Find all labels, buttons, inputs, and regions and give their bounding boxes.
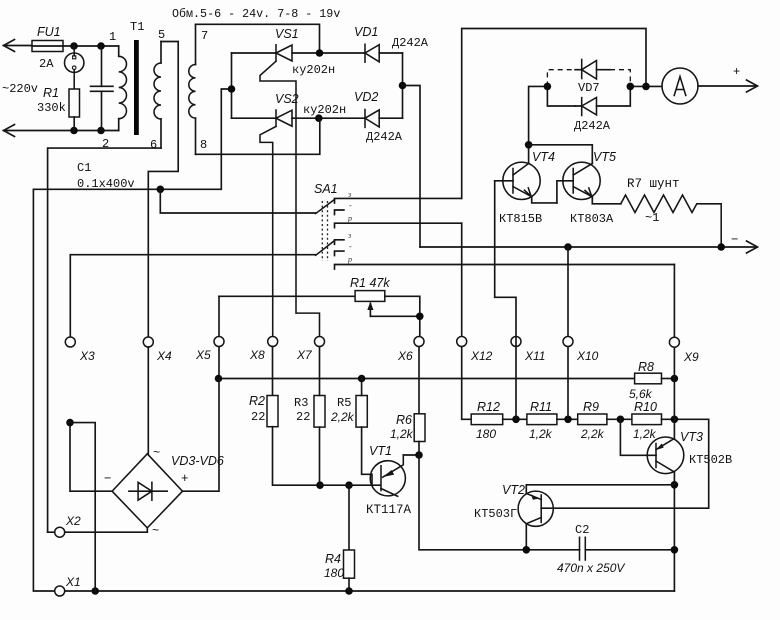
svg-text:VT2: VT2 bbox=[502, 483, 525, 497]
svg-text:X2: X2 bbox=[65, 514, 81, 528]
svg-text:180: 180 bbox=[476, 427, 496, 441]
junction dot VD out bbox=[399, 82, 407, 90]
terminal X11 bbox=[511, 337, 521, 347]
svg-text:+: + bbox=[181, 472, 189, 486]
svg-text:-: - bbox=[349, 201, 352, 210]
svg-text:2A: 2A bbox=[39, 57, 54, 71]
wire SA1 з-row riser to top link bbox=[462, 29, 646, 199]
neon lamp HL1 bbox=[65, 46, 84, 89]
terminal X1 bbox=[55, 586, 65, 596]
svg-text:Обм.5-6 - 24v. 7-8 - 19v: Обм.5-6 - 24v. 7-8 - 19v bbox=[172, 7, 340, 21]
svg-text:X11: X11 bbox=[524, 349, 545, 363]
svg-text:VD7: VD7 bbox=[578, 81, 600, 95]
minus arrow bbox=[747, 241, 758, 253]
svg-text:VT4: VT4 bbox=[532, 150, 555, 164]
switch SA1 pole1 blade bbox=[316, 200, 335, 214]
svg-text:1,2k: 1,2k bbox=[529, 427, 553, 441]
+DC rail bbox=[219, 378, 635, 380]
svg-text:C2: C2 bbox=[575, 523, 589, 537]
wire X12 to R12 bbox=[462, 347, 472, 420]
switch SA1 pole2 blade bbox=[316, 241, 335, 256]
terminal X8 bbox=[268, 337, 278, 347]
svg-text:−: − bbox=[104, 472, 112, 486]
svg-text:R11: R11 bbox=[530, 400, 552, 414]
svg-text:1,2k: 1,2k bbox=[633, 427, 657, 441]
svg-text:X4: X4 bbox=[156, 349, 172, 363]
wire R11-R9 link bbox=[557, 418, 578, 420]
thyristor VS1 bbox=[232, 45, 366, 336]
junction dot ammeter tap bbox=[642, 83, 650, 91]
wire X2 left stub from winding6 drop bbox=[48, 531, 55, 533]
wire SA1 pole1-р to X12 riser bbox=[461, 223, 463, 336]
junction dot R12/R11/X11 bbox=[512, 416, 520, 424]
wire VS2 out down to winding8 line bbox=[196, 118, 320, 154]
wire X3 node to bottom rail bbox=[70, 423, 95, 591]
svg-text:T1: T1 bbox=[130, 20, 144, 34]
transistor VT2 (mirrored) bbox=[518, 491, 553, 550]
wire X9 riser through R8/R10 nodes to VT3 bbox=[673, 347, 675, 438]
resistor R2 bbox=[267, 347, 320, 486]
wire VD1-VD2 junction vertical bbox=[402, 53, 404, 118]
svg-text:2,2k: 2,2k bbox=[330, 410, 355, 424]
svg-text:1: 1 bbox=[109, 30, 116, 44]
transistor VT5 bbox=[557, 162, 621, 204]
resistor R11 bbox=[527, 414, 557, 425]
resistor R9 bbox=[578, 414, 607, 425]
svg-text:-: - bbox=[349, 242, 352, 251]
plus output arrow bbox=[698, 80, 758, 92]
wire X5 to +rail dot bbox=[218, 347, 220, 379]
svg-text:8: 8 bbox=[200, 138, 207, 152]
svg-text:~: ~ bbox=[152, 524, 159, 538]
svg-text:X10: X10 bbox=[576, 349, 599, 363]
junction dot VT2 emitter line bbox=[671, 481, 679, 489]
svg-text:R6: R6 bbox=[396, 413, 412, 427]
junction dot R8/X9 bbox=[671, 375, 679, 383]
svg-text:R1: R1 bbox=[43, 86, 59, 100]
junction dot X3 node bbox=[66, 419, 74, 427]
junction dot R6/VT1 base2 bbox=[415, 451, 423, 459]
svg-text:КТ502В: КТ502В bbox=[689, 453, 732, 467]
wire bridge bottom to X2 line bbox=[65, 528, 147, 532]
junction dot bottom rail x95 bbox=[91, 587, 99, 595]
svg-text:R2: R2 bbox=[249, 394, 265, 408]
wire minus to X10 bbox=[567, 247, 569, 336]
SA1 pole1 contact р bbox=[335, 223, 462, 228]
SA1 pole2 contact р bbox=[335, 265, 675, 270]
resistor R3 bbox=[314, 347, 325, 485]
SA1 pole1 contact з bbox=[335, 198, 462, 203]
resistor R10 bbox=[632, 414, 662, 425]
svg-text:КТ117А: КТ117А bbox=[366, 503, 412, 517]
wire winding6 left run bbox=[48, 148, 161, 532]
wire X6 to R6 bbox=[418, 347, 420, 414]
svg-text:КТ503Г: КТ503Г bbox=[474, 507, 517, 521]
junction dot pot wiper bbox=[416, 313, 424, 321]
svg-text:VD1: VD1 bbox=[354, 25, 378, 39]
svg-text:VT3: VT3 bbox=[680, 430, 703, 444]
junction dot R9/R10/VT3 base bbox=[617, 416, 625, 424]
AC input arrow top (~220v line) bbox=[4, 40, 33, 52]
junction dot minus/X10 bbox=[564, 243, 572, 251]
terminal X3 bbox=[65, 337, 75, 347]
junction dot emitter line / R3 bbox=[316, 481, 324, 489]
terminal X6 bbox=[414, 337, 424, 347]
wire X3 riser bbox=[69, 255, 71, 337]
svg-text:R5: R5 bbox=[337, 396, 351, 410]
ammeter PA1 bbox=[662, 68, 698, 104]
wire R10 right to VT2 base corner bbox=[541, 419, 709, 508]
svg-text:C1: C1 bbox=[77, 161, 91, 175]
resistor R4 bbox=[344, 485, 355, 591]
svg-text:X5: X5 bbox=[195, 348, 211, 362]
wire VD7 left to VT4/VT5 collectors bbox=[529, 86, 548, 144]
wire X10 lower riser bbox=[567, 347, 569, 420]
wire collector node to VT5 bbox=[529, 145, 593, 164]
dashed diode symbol (VD7 box) bbox=[575, 60, 610, 80]
terminal X10 bbox=[563, 337, 573, 347]
capacitor C2 bbox=[580, 537, 675, 560]
svg-text:7: 7 bbox=[201, 29, 208, 43]
transformer T1 primary winding 1-2 bbox=[119, 46, 127, 131]
svg-text:р: р bbox=[347, 214, 352, 223]
node junction dots at lamp/C1 taps bbox=[70, 42, 78, 50]
junction dot bottom rail x349 (R4) bbox=[345, 587, 353, 595]
transistor VT4 bbox=[495, 145, 557, 203]
wire emitter line into VT1 bbox=[320, 484, 381, 486]
svg-text:SA1: SA1 bbox=[314, 182, 338, 196]
SA1 pole2 contact з bbox=[335, 240, 344, 245]
svg-text:VD3-VD6: VD3-VD6 bbox=[171, 454, 224, 468]
transistor VT3 bbox=[647, 437, 684, 474]
wire winding7 top to VS1 node bbox=[196, 24, 320, 53]
svg-text:5: 5 bbox=[158, 28, 165, 42]
T1 winding 5-6 bbox=[154, 42, 161, 149]
T1 core bar bbox=[134, 40, 139, 135]
svg-text:X1: X1 bbox=[65, 575, 81, 589]
svg-text:ку202н: ку202н bbox=[303, 103, 346, 117]
svg-text:з: з bbox=[347, 231, 351, 240]
wire VT2 emitter line bbox=[526, 485, 674, 494]
svg-text:VT1: VT1 bbox=[369, 444, 392, 458]
svg-text:1,2k: 1,2k bbox=[390, 427, 414, 441]
svg-text:22: 22 bbox=[296, 410, 310, 424]
junction dot rail/R5 bbox=[358, 375, 366, 383]
resistor R5 bbox=[356, 379, 372, 486]
wire VD junction to SA1 and minus rail bbox=[403, 86, 421, 248]
wire R12-R11 link bbox=[503, 418, 527, 420]
junction dot R11/R9/X10 bbox=[564, 416, 572, 424]
diode VD1 bbox=[365, 44, 403, 62]
vertical VS1-VS2 link with center tap dot bbox=[231, 53, 233, 118]
resistor R1 330k bbox=[69, 89, 80, 131]
svg-text:R9: R9 bbox=[583, 400, 599, 414]
svg-text:330k: 330k bbox=[37, 101, 66, 115]
svg-text:X6: X6 bbox=[397, 349, 413, 363]
svg-text:X7: X7 bbox=[296, 348, 313, 362]
dashed box VD7 alt diode bbox=[547, 70, 630, 87]
terminal X4 bbox=[143, 337, 153, 347]
wire bridge minus to X3 node bbox=[70, 423, 112, 492]
svg-text:R7 шунт: R7 шунт bbox=[627, 177, 680, 191]
capacitor C1 bbox=[91, 46, 114, 131]
fuse FU1 bbox=[32, 41, 119, 52]
resistor R6 bbox=[414, 414, 425, 455]
svg-text:FU1: FU1 bbox=[37, 25, 61, 39]
svg-text:R3: R3 bbox=[294, 396, 308, 410]
terminal X5 bbox=[214, 337, 224, 347]
svg-text:~220v: ~220v bbox=[2, 82, 38, 96]
switch SA1 pole1 common bbox=[160, 189, 315, 213]
svg-text:ку202н: ку202н bbox=[292, 63, 335, 77]
svg-text:VS1: VS1 bbox=[275, 27, 299, 41]
svg-text:470n x 250V: 470n x 250V bbox=[557, 561, 625, 575]
svg-text:X3: X3 bbox=[79, 349, 95, 363]
terminal X12 bbox=[457, 337, 467, 347]
junction dot VD7 left bbox=[544, 83, 552, 91]
diode VD2 bbox=[365, 110, 403, 128]
junction dot C2 right bbox=[671, 546, 679, 554]
terminal X2 bbox=[55, 527, 65, 537]
svg-text:R4: R4 bbox=[325, 552, 341, 566]
svg-text:~1: ~1 bbox=[645, 211, 659, 225]
svg-text:R1 47k: R1 47k bbox=[350, 276, 390, 290]
svg-text:R10: R10 bbox=[634, 400, 657, 414]
AC input arrow bottom bbox=[4, 125, 119, 137]
wire VS common left net (y189 rail to bottom rail) bbox=[33, 89, 674, 591]
svg-text:Д242А: Д242А bbox=[574, 119, 611, 133]
svg-text:R12: R12 bbox=[477, 400, 500, 414]
svg-text:X9: X9 bbox=[683, 350, 699, 364]
resistor R8 bbox=[635, 373, 675, 384]
diode VD7 bbox=[547, 86, 630, 115]
svg-text:+: + bbox=[733, 65, 740, 79]
svg-text:180: 180 bbox=[324, 566, 344, 580]
svg-text:X12: X12 bbox=[470, 349, 493, 363]
wire winding5 to X4 riser step bbox=[148, 42, 178, 337]
wire X11 riser + VT4 base drop bbox=[495, 181, 516, 419]
wire VD7 right to ammeter bbox=[630, 85, 662, 87]
junction dot y189 bbox=[157, 186, 165, 194]
rectifier bridge VD3-VD6 bbox=[112, 454, 182, 528]
svg-text:VT5: VT5 bbox=[593, 150, 616, 164]
terminal X7 bbox=[315, 337, 325, 347]
svg-text:VD2: VD2 bbox=[354, 90, 378, 104]
junction dot R10/X9 bbox=[671, 416, 679, 424]
svg-text:р: р bbox=[347, 255, 352, 264]
junction dot VT2 collector / C2 line bbox=[523, 546, 531, 554]
svg-text:X8: X8 bbox=[249, 348, 265, 362]
svg-text:−: − bbox=[731, 233, 739, 247]
wire R9-R10 link bbox=[607, 418, 632, 420]
terminal X9 bbox=[669, 337, 679, 347]
thyristor VS2 bbox=[232, 110, 366, 336]
SA1 mechanical link dotted bbox=[322, 201, 327, 261]
junction dot VD7 right bbox=[627, 83, 635, 91]
svg-text:з: з bbox=[347, 190, 351, 199]
SA1 pole1 contact mid bbox=[335, 210, 344, 215]
svg-text:VS2: VS2 bbox=[275, 92, 299, 106]
svg-text:~: ~ bbox=[153, 446, 160, 460]
svg-text:22: 22 bbox=[251, 410, 265, 424]
minus output rail bbox=[420, 246, 757, 248]
svg-text:КТ815В: КТ815В bbox=[499, 212, 542, 226]
wire bridge top to X4 bbox=[147, 347, 149, 454]
wire X5 riser (pot left to X5) bbox=[218, 296, 220, 336]
wire VT3 base drop bbox=[620, 419, 656, 455]
svg-text:Д242А: Д242А bbox=[366, 130, 403, 144]
svg-text:R8: R8 bbox=[638, 360, 654, 374]
T1 winding 7-8 bbox=[189, 24, 196, 154]
junction dot rail/X5/bridge bbox=[215, 375, 223, 383]
unijunction transistor VT1 bbox=[370, 455, 419, 496]
resistor R7 shunt zigzag bbox=[621, 195, 721, 247]
wire bridge plus to rail dot bbox=[183, 379, 220, 492]
svg-text:Д242А: Д242А bbox=[392, 36, 429, 50]
junction dot VS2 out bbox=[315, 114, 323, 122]
svg-text:5,6k: 5,6k bbox=[629, 387, 653, 401]
switch SA1 pole2 common bbox=[72, 254, 316, 256]
resistor R12 bbox=[471, 414, 503, 425]
svg-text:КТ803А: КТ803А bbox=[570, 212, 614, 226]
junction dot emitter line / R4 bbox=[345, 481, 353, 489]
wire VT3 emitter to lower nodes bbox=[673, 472, 675, 591]
svg-text:6: 6 bbox=[150, 138, 157, 152]
junction dot minus/R7 bbox=[717, 243, 725, 251]
junction dot VT4/VT5 collector node bbox=[525, 141, 533, 149]
wire VT1/R6 node to C2 line bbox=[419, 455, 580, 550]
junction dot VS1 out bbox=[316, 49, 324, 57]
wire X9 riser from SA1 pole2-р bbox=[673, 265, 675, 338]
potentiometer R1 47k bbox=[219, 291, 420, 337]
svg-text:2,2k: 2,2k bbox=[580, 427, 605, 441]
SA1 pole2 contact mid bbox=[335, 251, 344, 256]
